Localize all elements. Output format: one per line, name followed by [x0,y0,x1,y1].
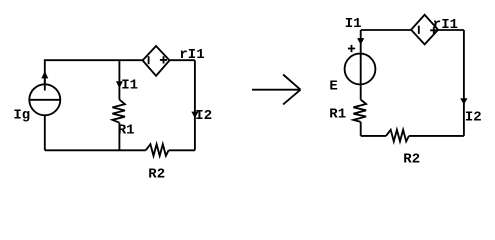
wire: left circuit top wire [45,60,143,84]
svg-text:R1: R1 [329,106,346,122]
svg-text:R2: R2 [403,152,420,168]
wire: right circuit bottom left segment [361,135,386,137]
svg-text:E: E [329,78,337,94]
svg-text:Ig: Ig [13,108,30,124]
svg-text:I2: I2 [465,110,482,126]
current source Ig (circle) [29,84,60,115]
current source Ig arrow (up) [44,78,46,91]
current source Ig bar (horizontal chord) [29,99,60,101]
svg-text:rI1: rI1 [179,47,204,63]
transformation arrow [252,75,301,105]
wire: left circuit bottom right segment [169,149,195,151]
wire: left circuit middle branch upper [118,60,120,99]
resistor R1 (left circuit, vertical zigzag) [112,100,125,123]
wire: right circuit right branch vertical [463,30,465,136]
current arrow I2 (left circuit, down) [191,112,198,119]
current arrow I1 (right circuit, down) [357,38,364,45]
wire: left circuit bottom left segment [45,149,146,151]
voltage source E (circle) [345,54,376,85]
wire: right circuit bottom right segment [409,135,464,137]
plus mark (right diamond) [430,27,437,34]
plus mark (left diamond) [160,56,167,63]
svg-text:I2: I2 [195,108,212,124]
dependent source U1 (left diamond) [143,46,170,76]
svg-text:rI1: rI1 [433,17,458,33]
wire: right circuit left branch lower [360,122,362,136]
current arrow I1 (left circuit, down) [116,81,123,88]
resistor R1 (right circuit, vertical zigzag) [353,100,366,122]
minus mark (right diamond) [418,26,420,34]
svg-text:I1: I1 [345,16,362,32]
wire: left circuit top right segment (diamond to corner) [170,59,195,61]
wire: left circuit right branch vertical [194,60,196,150]
dependent source U2 (right diamond) [411,15,438,45]
svg-text:R1: R1 [118,123,135,139]
wire: left circuit middle branch lower [118,123,120,151]
wire: right circuit top right segment (diamond to corner) [438,29,464,31]
current arrow I2 (right circuit, down) [460,98,467,105]
wire: left circuit left branch lower [44,115,46,150]
wire: right circuit left branch (through source) [360,30,362,100]
svg-text:I1: I1 [121,78,138,94]
wire: right circuit top wire [361,29,411,31]
plus mark (source E polarity) [348,45,355,52]
resistor R2 (left circuit, horizontal zigzag) [146,144,169,156]
minus mark (left diamond) [148,56,150,64]
svg-text:R2: R2 [148,167,165,183]
resistor R2 (right circuit, horizontal zigzag) [386,130,409,142]
